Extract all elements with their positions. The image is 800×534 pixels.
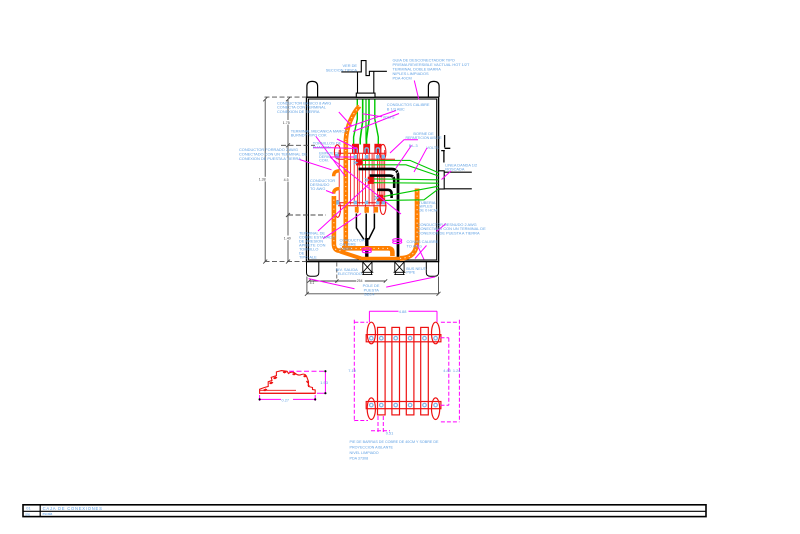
black cable D strands — [356, 214, 364, 240]
bottom tab 3 — [374, 207, 378, 213]
leader conductor forrado — [300, 160, 332, 170]
note conductor to awg — [407, 239, 439, 248]
svg-text:CAJA DE CONEXIONES: CAJA DE CONEXIONES — [43, 506, 103, 511]
svg-text:VOLTS: VOLTS — [427, 146, 440, 150]
svg-text:4.5: 4.5 — [284, 178, 289, 182]
lug block 2 — [368, 177, 374, 184]
leader pole right — [386, 277, 435, 287]
note pole de puesta — [363, 283, 380, 297]
dimension extension dashed mid upper — [281, 144, 315, 146]
green fan wire f — [384, 189, 439, 201]
svg-text:PDA 37308: PDA 37308 — [350, 456, 369, 460]
orange diagonal sweep — [340, 252, 361, 259]
leg stool left — [362, 262, 374, 275]
svg-text:SE0.4: SE0.4 — [364, 292, 375, 297]
note conductor desnudo mid — [310, 178, 335, 191]
tab clip 1 — [354, 148, 357, 153]
terminal assembly grid verticals — [339, 150, 385, 213]
profile plate top edge — [260, 389, 296, 391]
svg-text:DE 0 HCM: DE 0 HCM — [419, 207, 438, 212]
leader top-right note — [414, 81, 419, 100]
svg-text:s/e: s/e — [25, 512, 30, 516]
lug block 3 — [377, 195, 383, 202]
note tornillos — [313, 140, 342, 149]
tab clip 2 — [365, 148, 368, 153]
svg-text:BURNDY TIPO COK: BURNDY TIPO COK — [291, 132, 327, 137]
assembly oval top-left — [334, 145, 340, 159]
svg-text:01: 01 — [26, 506, 30, 511]
orange elbow stub upper — [334, 171, 340, 176]
note guia desconectador — [393, 58, 471, 81]
lug block 1 — [356, 160, 362, 166]
bottom tab 2 — [364, 207, 369, 213]
note conductor forrado — [239, 147, 307, 161]
grid oval bottom-left — [367, 398, 375, 420]
magenta band cable A — [393, 239, 402, 244]
leader terminal mecanica — [316, 137, 345, 177]
title block divider horizontal — [23, 510, 706, 512]
note bus neut — [406, 266, 426, 275]
lug arrow 2 — [365, 178, 369, 181]
profile detail outline — [260, 371, 316, 394]
svg-text:TO AWG: TO AWG — [407, 244, 422, 249]
leader conductos 1 — [344, 111, 396, 129]
top tab 1 — [352, 144, 359, 154]
leader conductos 2 — [353, 114, 399, 132]
green wire 4 — [375, 100, 379, 145]
lug arrow 1 — [353, 161, 357, 164]
svg-text:ROSCADA: ROSCADA — [445, 167, 465, 172]
leader volts small — [363, 114, 383, 117]
orange bottom run — [361, 257, 404, 260]
bushing dome left — [307, 81, 318, 97]
leader borne underline — [390, 140, 418, 153]
leg stool right — [394, 262, 406, 275]
dimension line vertical outer — [263, 97, 267, 263]
svg-text:PROYECCION AISLANTE: PROYECCION AISLANTE — [350, 446, 394, 450]
svg-text:PIE DE BARRAS DE COBRE DE: PIE DE BARRAS DE COBRE DE 40CM Y SOBRE D… — [350, 440, 440, 444]
title block outer — [23, 505, 706, 517]
assembly oval bottom-left — [335, 201, 341, 218]
width dim extension left below box — [306, 277, 308, 294]
grid oval top-right — [432, 322, 440, 344]
conduit dot dashes — [334, 106, 417, 258]
assembly oval bottom-right — [380, 199, 386, 215]
dimension extension dashed top left — [265, 96, 307, 98]
dimension extension dashed mid lower — [288, 214, 326, 216]
leader terminal cobre long — [323, 214, 361, 239]
grid dim 719 connectors — [354, 322, 368, 420]
leader diagonal across assembly 2 — [318, 184, 369, 231]
green fan wire c — [374, 178, 439, 181]
green wire 2 — [360, 100, 363, 145]
profile hatch marks — [264, 371, 310, 391]
assembly oval top-right — [380, 144, 386, 160]
green wire 3 — [367, 100, 370, 145]
grid dim 051 — [371, 416, 390, 433]
note ver detalle — [326, 63, 358, 73]
svg-text:TIPO-ALE: TIPO-ALE — [299, 255, 317, 260]
svg-text:COM.: COM. — [319, 159, 329, 163]
svg-text:REPARTICION AISLTE: REPARTICION AISLTE — [406, 136, 443, 140]
profile dim label 0.27 — [281, 397, 293, 401]
green wire 1 from mast base — [354, 100, 358, 145]
green fan wire d — [374, 182, 439, 185]
dimension line vertical inner — [286, 97, 290, 263]
svg-text:VOLTS: VOLTS — [383, 115, 395, 119]
mast base plate — [356, 93, 375, 97]
width dim extension right below box — [438, 277, 440, 294]
profile baseline — [260, 392, 316, 394]
top tab 2 — [363, 144, 370, 154]
grid bolt circles top — [370, 336, 438, 340]
note linea danda — [445, 163, 477, 172]
bushing dome right — [428, 81, 439, 97]
svg-text:TO AWG: TO AWG — [310, 186, 325, 191]
grid dim 4.88 line — [369, 310, 437, 312]
cable D strand 3 — [369, 214, 375, 240]
profile dim 0.27 line — [260, 395, 316, 401]
svg-text:1.75: 1.75 — [283, 121, 290, 125]
cable bend white gap marks — [393, 169, 401, 178]
note pie de barras — [350, 440, 440, 460]
enclosure box inner wall — [309, 99, 437, 260]
note conductos calibre — [387, 102, 430, 111]
dimension label 1.75 — [282, 120, 293, 125]
grid dim 124 line — [441, 320, 460, 422]
leader X cross right bottom — [415, 245, 427, 260]
dimension extension dashed bottom — [265, 260, 307, 262]
svg-text:1.38: 1.38 — [259, 178, 266, 182]
svg-text:7.19: 7.19 — [348, 368, 356, 373]
dim254 label — [356, 279, 365, 283]
svg-text:B 1/3 ABC: B 1/3 ABC — [387, 107, 405, 112]
black cable A horizontal and bend — [359, 169, 399, 261]
bottom tab 1 — [355, 207, 359, 213]
svg-text:PIPE: PIPE — [406, 270, 415, 275]
leader to VOLT label — [414, 148, 427, 172]
green fan wire a — [362, 160, 438, 172]
grid detail rail top — [366, 335, 441, 342]
leader diagonal across assembly — [331, 158, 402, 215]
grid bolt circles bottom — [370, 403, 438, 407]
svg-text:PDA 40CM: PDA 40CM — [393, 76, 412, 81]
note conductor desnudo right low — [418, 222, 486, 236]
black cable C — [377, 190, 391, 198]
orange conduit U-tube — [334, 141, 346, 251]
mast bracket — [341, 61, 387, 94]
note conductor calibre inner — [340, 237, 365, 251]
grid detail rail bottom — [366, 402, 441, 409]
leader conductor desnudo mid — [326, 191, 334, 194]
svg-text:B.L.3: B.L.3 — [409, 144, 418, 148]
svg-text:NIVEL LIMPIADO: NIVEL LIMPIADO — [350, 451, 379, 455]
conduit hub fitting right wall — [439, 171, 445, 189]
note tuberia niples — [419, 200, 438, 212]
grid dim 4.88 label — [399, 309, 409, 314]
svg-text:2 AWG: 2 AWG — [340, 246, 352, 251]
blue nut row top — [335, 154, 385, 158]
tab clip 3 — [376, 148, 379, 153]
width dimension line bottom — [305, 292, 441, 296]
note terminal mecanica — [291, 128, 347, 137]
svg-text:ELECTRODO: ELECTRODO — [338, 271, 362, 276]
grid dim 719 line — [353, 320, 355, 422]
note terminal cobre block — [299, 230, 335, 259]
svg-text:1.93: 1.93 — [320, 380, 328, 385]
svg-text:FIJACION: FIJACION — [313, 144, 331, 149]
grid oval bottom-right — [432, 398, 440, 420]
dimension label 4.50 — [283, 177, 292, 182]
terminal assembly rails — [338, 153, 395, 206]
profile dim dots — [324, 371, 326, 393]
svg-text:escala: escala — [43, 512, 53, 516]
svg-text:4.1: 4.1 — [310, 281, 315, 285]
dimension label 1.40 — [283, 236, 294, 241]
orange big elbow right — [400, 189, 417, 259]
enclosure box outer wall — [307, 97, 439, 261]
profile dim 1.93 extension — [289, 370, 325, 372]
top tab 3 — [374, 144, 381, 154]
foot left — [307, 262, 319, 276]
black cable B — [370, 176, 395, 188]
orange conduit S-curve — [346, 106, 360, 143]
leader conductor top-left — [339, 112, 352, 127]
leader conductor desnudo right — [437, 224, 447, 232]
blue nut row bottom — [336, 200, 386, 204]
cable D strand 2 — [365, 214, 367, 240]
svg-text:4.80: 4.80 — [443, 368, 451, 373]
leader empate — [330, 156, 354, 158]
leader linea danda — [442, 171, 452, 180]
dim254 extension dashed — [336, 263, 338, 283]
grid detail bars — [378, 327, 429, 415]
grid dim 480 line — [441, 338, 449, 406]
orange elbow stub lower — [334, 189, 340, 194]
svg-text:4.88: 4.88 — [399, 309, 407, 314]
leader pole left — [309, 279, 355, 289]
magenta band cable D — [362, 248, 371, 253]
black cable D trunk — [365, 238, 368, 261]
profile dim 0.27 dots — [260, 398, 316, 400]
green fan wire b — [362, 165, 438, 176]
note niv salida — [336, 267, 362, 276]
conduit stub lines right — [444, 172, 472, 189]
grid dim 4.88 extensions — [369, 311, 437, 322]
profile dim 1.93 line — [317, 371, 325, 393]
leader to B13 label — [396, 145, 412, 168]
svg-text:SECCION TIPICA: SECCION TIPICA — [326, 67, 358, 72]
svg-text:0.27: 0.27 — [282, 398, 290, 403]
note borne reparticion — [406, 131, 443, 140]
svg-text:1.40: 1.40 — [284, 236, 291, 240]
dim254 line — [307, 279, 387, 282]
foot right — [426, 262, 438, 276]
green wire 5 middle — [365, 100, 367, 145]
lug arrow 3 — [374, 196, 378, 199]
svg-text:CONEXION DE TIERRA: CONEXION DE TIERRA — [277, 109, 320, 114]
note empate — [319, 151, 340, 162]
svg-text:0.51: 0.51 — [386, 430, 394, 435]
leader tornillos diag — [337, 139, 358, 149]
orange horizontal run — [342, 248, 392, 256]
title block divider vertical — [39, 505, 41, 517]
svg-text:CONEXION DE PUESTA A TIERRA: CONEXION DE PUESTA A TIERRA — [418, 230, 480, 235]
dimension label 5.30 — [258, 177, 269, 182]
note conductor desnudo top-left — [277, 100, 331, 114]
bracket Z right top — [441, 135, 450, 163]
grid oval top-left — [367, 322, 375, 344]
svg-text:1.24: 1.24 — [453, 368, 461, 373]
leader tornillos — [313, 147, 356, 150]
svg-text:CONEXION DE PUESTA A TIERRA: CONEXION DE PUESTA A TIERRA — [239, 156, 301, 161]
green fan wire e — [384, 186, 439, 196]
